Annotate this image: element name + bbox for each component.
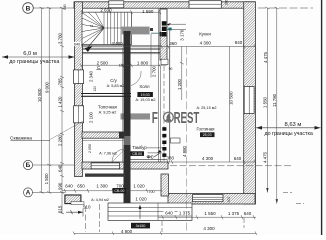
svg-text:А: 7,96 м2: А: 7,96 м2: [99, 151, 117, 155]
dim line livingroom bottom row: [161, 160, 256, 164]
window top stairs: [109, 1, 124, 8]
room tambour label: [131, 145, 155, 160]
svg-text:11 780: 11 780: [272, 93, 277, 107]
svg-text:F: F: [152, 109, 158, 127]
svg-text:В: В: [26, 5, 31, 12]
svg-text:640: 640: [74, 42, 80, 46]
radiator squares livingroom wall: [162, 127, 166, 157]
svg-text:Гостиная: Гостиная: [196, 127, 215, 132]
svg-text:4 475: 4 475: [263, 151, 268, 163]
svg-text:1 020: 1 020: [135, 197, 147, 202]
svg-text:Холл: Холл: [139, 84, 150, 89]
svg-text:990: 990: [57, 182, 62, 190]
dim texts livingroom bottom row: [167, 155, 242, 161]
stair block: [82, 12, 132, 52]
grey band upper: [122, 27, 150, 35]
svg-text:до границы участка: до границы участка: [9, 59, 60, 65]
svg-text:2 630: 2 630: [100, 7, 112, 12]
svg-text:С/у: С/у: [110, 78, 117, 83]
room boiler label: [98, 105, 117, 115]
svg-text:до границы участка: до границы участка: [265, 131, 313, 137]
axis B line: [33, 7, 313, 9]
window right livingroom: [244, 86, 254, 113]
entrance steps: [108, 203, 192, 220]
dim 510 arrows: [66, 202, 84, 217]
svg-text:840: 840: [235, 40, 243, 45]
svg-text:А: 4,94 м2: А: 4,94 м2: [91, 198, 109, 202]
axis A line: [33, 191, 66, 193]
door arc tambour: [112, 149, 125, 162]
svg-text:А: А: [26, 190, 31, 197]
teal pipe line vertical: [150, 28, 172, 158]
svg-text:2 340: 2 340: [89, 70, 94, 82]
svg-text:Топочная: Топочная: [98, 105, 117, 110]
left dim chain 3: [60, 7, 64, 214]
room kitchen label: [199, 32, 211, 37]
svg-text:Кухня: Кухня: [199, 32, 211, 37]
svg-text:640: 640: [65, 183, 73, 188]
svg-text:А: 5,83 м2: А: 5,83 м2: [107, 84, 125, 88]
svg-text:1 375: 1 375: [179, 211, 191, 216]
dim texts kitchen row: [73, 40, 243, 46]
wall bottom livingroom: [168, 194, 255, 205]
wall top exterior: [74, 2, 255, 8]
partition wc-boiler: [81, 94, 131, 97]
svg-text:ФС: ФС: [147, 154, 155, 159]
svg-text:120: 120: [93, 86, 97, 92]
radiator squares kitchen wall: [159, 21, 166, 36]
svg-text:2 100: 2 100: [89, 111, 94, 123]
left dim chain 1: [40, 7, 44, 193]
svg-text:650: 650: [77, 183, 85, 188]
svg-text:10 500: 10 500: [37, 88, 42, 102]
teal pipe line horizontal: [151, 33, 160, 77]
dim line stairs top row: [81, 10, 161, 14]
svg-text:640: 640: [165, 211, 173, 216]
svg-text:СВ.00: СВ.00: [132, 152, 142, 156]
room hallway area label: [99, 151, 117, 155]
room hall label: [136, 84, 156, 102]
svg-text:1 300: 1 300: [96, 183, 108, 188]
svg-text:1 550: 1 550: [204, 211, 216, 216]
dim line interior livingroom vertical: [229, 47, 231, 163]
svg-text:3 760: 3 760: [57, 32, 62, 44]
svg-text:1 590: 1 590: [142, 9, 154, 14]
svg-text:380: 380: [167, 155, 175, 160]
room wc label: [107, 78, 125, 88]
svg-text:1 420: 1 420: [57, 96, 62, 108]
svg-text:3 170: 3 170: [180, 29, 185, 41]
svg-text:2 700: 2 700: [151, 65, 156, 77]
svg-text:REST: REST: [174, 109, 200, 127]
dim line tambour row: [62, 189, 162, 193]
well label: [10, 121, 84, 142]
svg-text:СВ.00: СВ.00: [114, 189, 124, 193]
window bottom livingroom: [193, 195, 224, 202]
svg-text:2 280: 2 280: [57, 134, 62, 146]
frame line right: [321, 0, 323, 235]
svg-text:1 020: 1 020: [133, 183, 145, 188]
svg-text:Б: Б: [26, 162, 31, 169]
svg-text:А: 25,15 м2: А: 25,15 м2: [197, 106, 217, 110]
svg-text:4 475: 4 475: [263, 51, 268, 63]
right dim chain 2: [275, 7, 279, 204]
svg-text:4 480: 4 480: [111, 41, 123, 46]
wall right exterior: [244, 2, 256, 204]
boundary arrow right: [256, 122, 321, 137]
watermark FOREST: [152, 109, 200, 127]
boundary arrow left: [2, 51, 75, 65]
svg-text:510: 510: [83, 204, 91, 209]
wall bottom hallway: [82, 162, 168, 169]
wall kitchen-hall partition: [159, 9, 170, 162]
svg-text:1 375: 1 375: [228, 211, 240, 216]
svg-text:640: 640: [57, 164, 62, 172]
svg-text:640: 640: [63, 4, 67, 10]
tambour area label: [91, 188, 126, 202]
window top kitchen: [189, 1, 221, 9]
axis circle A: [24, 188, 33, 197]
axis circle B2: [23, 160, 32, 169]
svg-text:640: 640: [234, 156, 242, 161]
svg-text:8,63 м: 8,63 м: [285, 122, 302, 128]
tambour top dark bar: [85, 174, 125, 177]
svg-text:1 500: 1 500: [44, 173, 49, 185]
dim line bottom overall row: [73, 232, 257, 236]
right dim labels: [263, 51, 277, 163]
svg-text:120: 120: [119, 64, 125, 68]
svg-text:515: 515: [57, 205, 62, 213]
right dim chain 1: [265, 7, 269, 193]
dashed axes below plan: [86, 47, 244, 233]
svg-text:4 880: 4 880: [182, 145, 187, 157]
svg-text:1 550: 1 550: [263, 96, 268, 108]
dim texts bottom rows: [83, 204, 252, 234]
svg-text:2 050: 2 050: [88, 144, 92, 153]
hall bottom line: [131, 158, 168, 160]
svg-text:640: 640: [244, 211, 252, 216]
svg-text:300: 300: [227, 197, 231, 203]
svg-text:А: 19,03 м2: А: 19,03 м2: [136, 98, 156, 102]
room livingroom label: [196, 106, 216, 137]
left dim labels rotated: [37, 4, 67, 213]
dim line bottom steps row: [158, 215, 256, 219]
svg-text:360: 360: [169, 41, 177, 46]
wall tambour right: [161, 174, 168, 196]
steps badge: [131, 223, 150, 229]
left dim chain 2: [47, 7, 51, 193]
window left boiler: [74, 106, 84, 123]
tambour pier: [65, 195, 81, 204]
partition boiler-hallway: [82, 132, 124, 141]
right axis dash: [283, 193, 304, 204]
axis B2 line: [33, 164, 292, 167]
dim texts top: [100, 7, 153, 14]
svg-text:4 800: 4 800: [121, 229, 133, 234]
axis circle B top: [23, 3, 34, 14]
svg-text:3х150: 3х150: [136, 224, 146, 228]
dim texts tambour row: [65, 183, 154, 201]
svg-text:16: 16: [90, 24, 94, 28]
svg-text:9 000: 9 000: [45, 81, 50, 93]
svg-text:700: 700: [116, 183, 124, 188]
svg-text:785: 785: [57, 78, 62, 86]
grey band lower: [121, 113, 151, 119]
dim texts wc row: [96, 60, 172, 71]
dim line wc row: [80, 64, 167, 68]
svg-text:25,03: 25,03: [203, 133, 212, 137]
svg-text:700: 700: [149, 190, 155, 194]
window hallway bottom: [91, 163, 119, 169]
svg-text:Тамбур: Тамбур: [132, 145, 147, 150]
shaft dark bar: [122, 31, 130, 205]
svg-text:6,0 м: 6,0 м: [23, 51, 37, 57]
svg-text:А: 9,25 м2: А: 9,25 м2: [99, 111, 117, 115]
svg-text:19,03: 19,03: [141, 93, 150, 97]
svg-text:4 300: 4 300: [202, 156, 214, 161]
radiator leaders kitchen: [167, 23, 186, 30]
rotated interior dims: [88, 0, 234, 202]
stair bottom double lines: [82, 45, 160, 53]
svg-text:10 500: 10 500: [229, 91, 234, 105]
svg-text:240: 240: [225, 0, 229, 5]
small box livingroom: [171, 138, 181, 143]
radiator leaders livingroom: [147, 148, 162, 157]
svg-text:1 200: 1 200: [177, 78, 182, 90]
svg-text:Скважина: Скважина: [10, 136, 32, 142]
svg-text:4 300: 4 300: [200, 41, 212, 46]
dim line kitchen row: [81, 45, 256, 49]
svg-text:4 300: 4 300: [203, 226, 215, 231]
svg-text:1 800: 1 800: [137, 60, 149, 65]
door arc wc: [131, 71, 141, 86]
window left wc: [74, 70, 84, 84]
wall left exterior: [75, 2, 83, 177]
svg-text:90: 90: [169, 67, 173, 71]
